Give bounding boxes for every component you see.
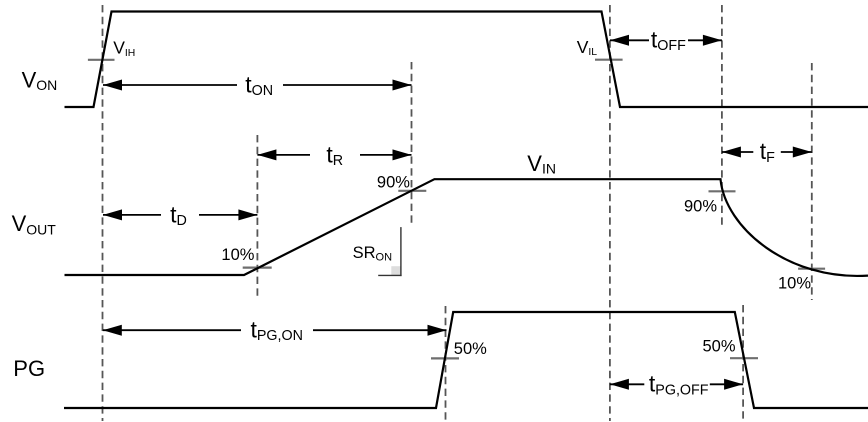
svg-text:50%: 50%	[703, 338, 736, 356]
svg-text:50%: 50%	[454, 340, 487, 358]
svg-text:90%: 90%	[377, 174, 410, 192]
svg-text:10%: 10%	[778, 275, 811, 293]
svg-text:10%: 10%	[221, 246, 254, 264]
svg-text:90%: 90%	[684, 198, 717, 216]
svg-text:PG: PG	[13, 356, 45, 381]
